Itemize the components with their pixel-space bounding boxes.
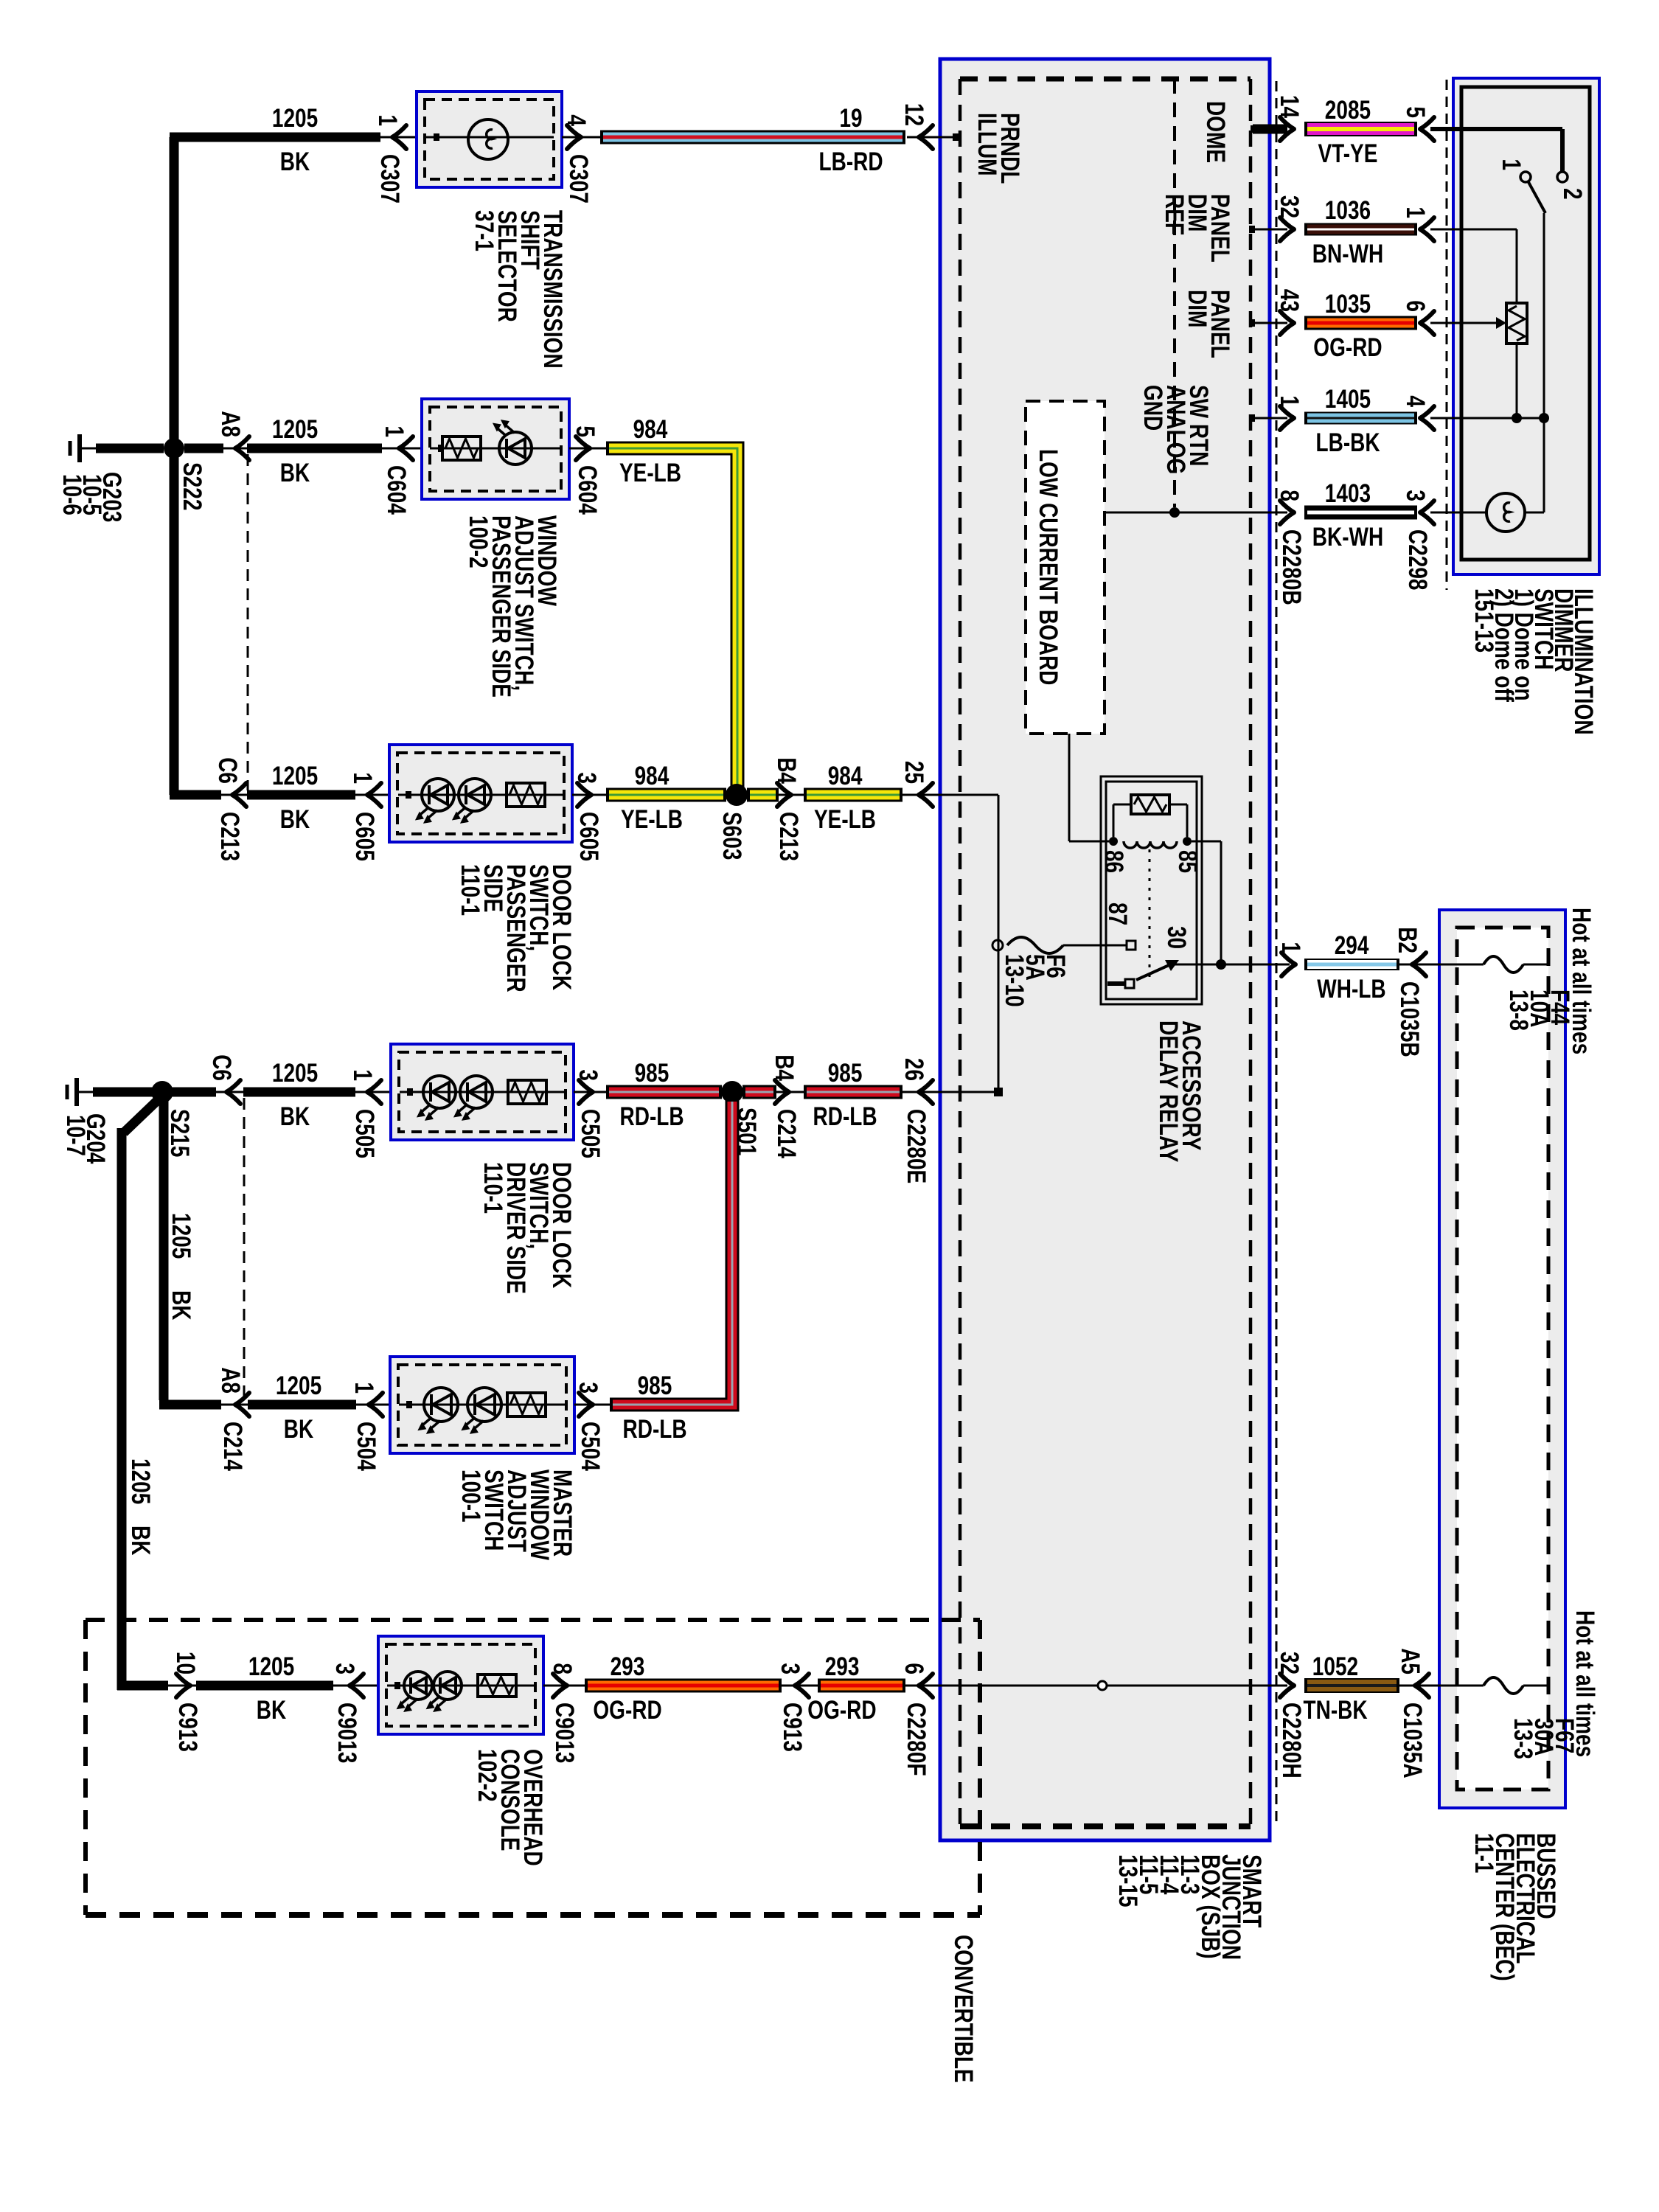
svg-text:3: 3 (330, 1663, 359, 1674)
svg-text:32: 32 (1275, 1652, 1304, 1674)
svg-text:293: 293 (825, 1652, 860, 1681)
svg-text:6: 6 (1401, 300, 1430, 312)
svg-text:86: 86 (1099, 850, 1128, 873)
svg-text:110-1: 110-1 (479, 1162, 507, 1214)
svg-text:151-13: 151-13 (1470, 588, 1498, 653)
svg-text:1: 1 (348, 1069, 377, 1081)
svg-text:RD-LB: RD-LB (620, 1102, 684, 1131)
svg-text:DOME: DOME (1201, 101, 1230, 163)
svg-text:1: 1 (380, 425, 408, 437)
svg-text:C9013: C9013 (550, 1703, 579, 1764)
svg-text:C2280E: C2280E (902, 1109, 931, 1183)
svg-text:BK: BK (280, 459, 310, 487)
svg-text:BK: BK (257, 1696, 286, 1725)
svg-text:3: 3 (574, 1382, 602, 1394)
svg-text:C307: C307 (564, 154, 593, 204)
svg-text:ILLUM: ILLUM (973, 113, 1001, 176)
svg-text:1205: 1205 (272, 762, 318, 790)
svg-text:85: 85 (1173, 850, 1202, 873)
svg-text:C913: C913 (173, 1703, 202, 1752)
svg-text:REF: REF (1160, 194, 1189, 235)
svg-text:C604: C604 (573, 465, 602, 515)
svg-text:1205: 1205 (167, 1213, 195, 1259)
svg-text:43: 43 (1275, 289, 1304, 312)
svg-text:RD-LB: RD-LB (623, 1415, 687, 1444)
svg-text:C307: C307 (375, 154, 404, 204)
svg-text:BK: BK (167, 1290, 195, 1320)
svg-text:BK: BK (280, 1102, 310, 1131)
svg-text:1205: 1205 (126, 1458, 155, 1504)
svg-text:10-7: 10-7 (61, 1115, 90, 1156)
svg-text:26: 26 (900, 1058, 928, 1081)
svg-text:984: 984 (828, 762, 863, 790)
svg-text:WH-LB: WH-LB (1317, 975, 1385, 1004)
svg-text:C1035B: C1035B (1395, 981, 1424, 1057)
svg-text:37-1: 37-1 (470, 210, 498, 251)
svg-text:1405: 1405 (1325, 385, 1371, 414)
svg-text:C214: C214 (772, 1109, 801, 1158)
svg-text:C504: C504 (576, 1422, 605, 1471)
svg-text:985: 985 (638, 1371, 672, 1400)
svg-text:S222: S222 (178, 462, 206, 510)
svg-text:A8: A8 (216, 1367, 245, 1394)
svg-text:BK: BK (280, 805, 310, 834)
svg-text:1: 1 (348, 772, 377, 784)
svg-text:25: 25 (900, 761, 928, 784)
svg-text:S215: S215 (165, 1109, 194, 1157)
svg-text:LOW CURRENT BOARD: LOW CURRENT BOARD (1034, 449, 1062, 685)
svg-text:C604: C604 (382, 465, 411, 515)
svg-text:C2280H: C2280H (1277, 1703, 1306, 1778)
svg-text:1: 1 (1497, 159, 1526, 170)
svg-text:5: 5 (1401, 106, 1430, 118)
svg-text:LB-BK: LB-BK (1316, 428, 1380, 457)
svg-text:DIM: DIM (1183, 290, 1211, 327)
svg-text:1052: 1052 (1312, 1652, 1358, 1681)
svg-text:110-1: 110-1 (456, 864, 484, 916)
svg-text:5: 5 (571, 425, 599, 437)
svg-text:3: 3 (574, 1069, 602, 1081)
svg-text:6: 6 (900, 1663, 928, 1674)
svg-text:10-6: 10-6 (58, 474, 86, 515)
svg-text:12: 12 (900, 103, 928, 126)
svg-text:13-15: 13-15 (1113, 1854, 1142, 1907)
svg-text:100-2: 100-2 (464, 515, 493, 568)
svg-text:8: 8 (1275, 490, 1304, 501)
svg-text:1: 1 (373, 114, 402, 126)
svg-text:Hot at all times: Hot at all times (1567, 908, 1596, 1054)
svg-text:19: 19 (840, 104, 863, 133)
svg-text:102-2: 102-2 (473, 1749, 501, 1802)
svg-text:LB-RD: LB-RD (819, 147, 883, 176)
svg-text:2: 2 (1558, 188, 1587, 200)
svg-text:1205: 1205 (272, 104, 318, 133)
svg-text:13-3: 13-3 (1509, 1718, 1537, 1759)
svg-text:14: 14 (1275, 95, 1304, 119)
svg-text:3: 3 (776, 1663, 804, 1674)
svg-text:8: 8 (548, 1663, 577, 1674)
svg-text:DELAY RELAY: DELAY RELAY (1154, 1020, 1183, 1162)
svg-text:C213: C213 (215, 812, 244, 861)
svg-text:985: 985 (635, 1059, 669, 1088)
svg-text:1: 1 (1275, 395, 1304, 407)
svg-text:1205: 1205 (272, 1059, 318, 1088)
svg-text:100-1: 100-1 (456, 1470, 485, 1523)
svg-text:4: 4 (1401, 395, 1430, 407)
svg-text:YE-LB: YE-LB (814, 805, 876, 834)
svg-text:1: 1 (349, 1382, 378, 1394)
svg-text:1403: 1403 (1325, 479, 1371, 508)
svg-text:C6: C6 (207, 1054, 236, 1081)
svg-text:32: 32 (1275, 195, 1304, 218)
svg-text:RD-LB: RD-LB (813, 1102, 877, 1131)
svg-text:CONVERTIBLE: CONVERTIBLE (949, 1935, 978, 2083)
svg-text:1: 1 (1276, 942, 1305, 953)
svg-text:VT-YE: VT-YE (1318, 139, 1378, 168)
svg-text:OG-RD: OG-RD (593, 1696, 661, 1725)
svg-text:30: 30 (1162, 926, 1191, 949)
svg-text:C2298: C2298 (1403, 529, 1432, 591)
svg-text:B4: B4 (770, 1054, 799, 1081)
svg-text:C6: C6 (213, 757, 242, 784)
svg-text:C2280B: C2280B (1277, 529, 1306, 605)
svg-text:B4: B4 (772, 757, 801, 784)
svg-text:BK-WH: BK-WH (1312, 523, 1383, 552)
svg-text:1205: 1205 (272, 415, 318, 444)
svg-text:984: 984 (635, 762, 669, 790)
svg-text:3: 3 (1401, 490, 1430, 501)
svg-text:C913: C913 (778, 1703, 807, 1752)
svg-text:87: 87 (1103, 902, 1132, 925)
svg-text:BK: BK (280, 147, 310, 176)
svg-text:11-1: 11-1 (1470, 1833, 1498, 1874)
svg-text:985: 985 (828, 1059, 863, 1088)
svg-text:10: 10 (171, 1652, 200, 1674)
svg-text:S603: S603 (717, 812, 746, 860)
svg-text:BK: BK (126, 1526, 155, 1555)
svg-text:13-10: 13-10 (1000, 954, 1029, 1007)
svg-text:984: 984 (633, 415, 668, 444)
svg-text:2085: 2085 (1325, 96, 1371, 125)
svg-text:293: 293 (611, 1652, 645, 1681)
svg-text:4: 4 (562, 114, 591, 126)
svg-text:294: 294 (1335, 931, 1369, 960)
svg-text:13-8: 13-8 (1504, 990, 1533, 1031)
svg-text:OG-RD: OG-RD (1313, 333, 1382, 362)
svg-text:1205: 1205 (248, 1652, 294, 1681)
svg-text:C213: C213 (774, 812, 803, 861)
svg-text:OG-RD: OG-RD (807, 1696, 876, 1725)
svg-text:1035: 1035 (1325, 290, 1371, 319)
svg-text:C1035A: C1035A (1398, 1703, 1427, 1778)
svg-text:BK: BK (284, 1415, 313, 1444)
svg-text:YE-LB: YE-LB (621, 805, 683, 834)
svg-text:A5: A5 (1396, 1648, 1425, 1674)
svg-text:C505: C505 (350, 1109, 379, 1158)
svg-text:A8: A8 (216, 411, 245, 437)
svg-text:3: 3 (572, 772, 601, 784)
svg-text:1205: 1205 (276, 1371, 321, 1400)
svg-text:C9013: C9013 (333, 1703, 361, 1764)
svg-text:C605: C605 (350, 812, 379, 861)
svg-text:C214: C214 (218, 1422, 247, 1471)
svg-text:C505: C505 (576, 1109, 605, 1158)
svg-text:1036: 1036 (1325, 196, 1371, 225)
svg-text:YE-LB: YE-LB (619, 459, 681, 487)
svg-text:1: 1 (1401, 206, 1430, 218)
svg-text:C504: C504 (352, 1422, 380, 1471)
svg-text:TN-BK: TN-BK (1304, 1696, 1368, 1725)
svg-text:GND: GND (1138, 385, 1167, 431)
svg-text:C605: C605 (574, 812, 603, 861)
svg-text:BN-WH: BN-WH (1312, 240, 1383, 268)
svg-text:C2280F: C2280F (902, 1703, 931, 1776)
svg-text:B2: B2 (1393, 927, 1422, 953)
